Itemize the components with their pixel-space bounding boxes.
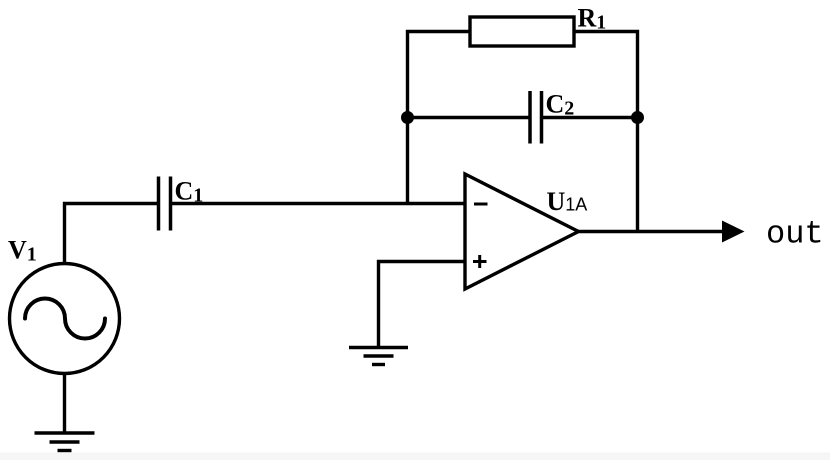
wire node A to C2	[408, 116, 530, 119]
capacitor C2	[530, 91, 542, 144]
op-amp U1 triangle	[465, 174, 579, 289]
ground (V1)	[35, 433, 95, 451]
wire op-amp plus input to ground	[379, 262, 466, 348]
junction dot output node / C2 right	[631, 111, 644, 124]
bottom edge band	[0, 453, 830, 460]
junction dot node A / C2 left	[401, 111, 414, 124]
wire node A vertical (inverting node up to R1)	[408, 32, 471, 204]
wire R1 right, down to output node	[574, 32, 638, 232]
wire op-amp output	[579, 230, 724, 233]
wire C2 to output node	[542, 116, 638, 119]
wire V1 top to C1	[65, 204, 159, 263]
output arrowhead	[722, 221, 745, 243]
V1 sine wave	[25, 299, 105, 339]
ground (op-amp +)	[349, 348, 408, 365]
svg-text:out: out	[766, 216, 824, 253]
op-amp plus pin mark	[473, 255, 487, 268]
op-amp minus pin mark	[474, 203, 488, 206]
wire C1 to op-amp inverting input	[171, 202, 466, 205]
resistor R1	[470, 17, 574, 46]
voltage source V1	[10, 264, 120, 374]
wire V1 bottom to ground	[63, 374, 66, 433]
capacitor C1	[159, 177, 171, 231]
